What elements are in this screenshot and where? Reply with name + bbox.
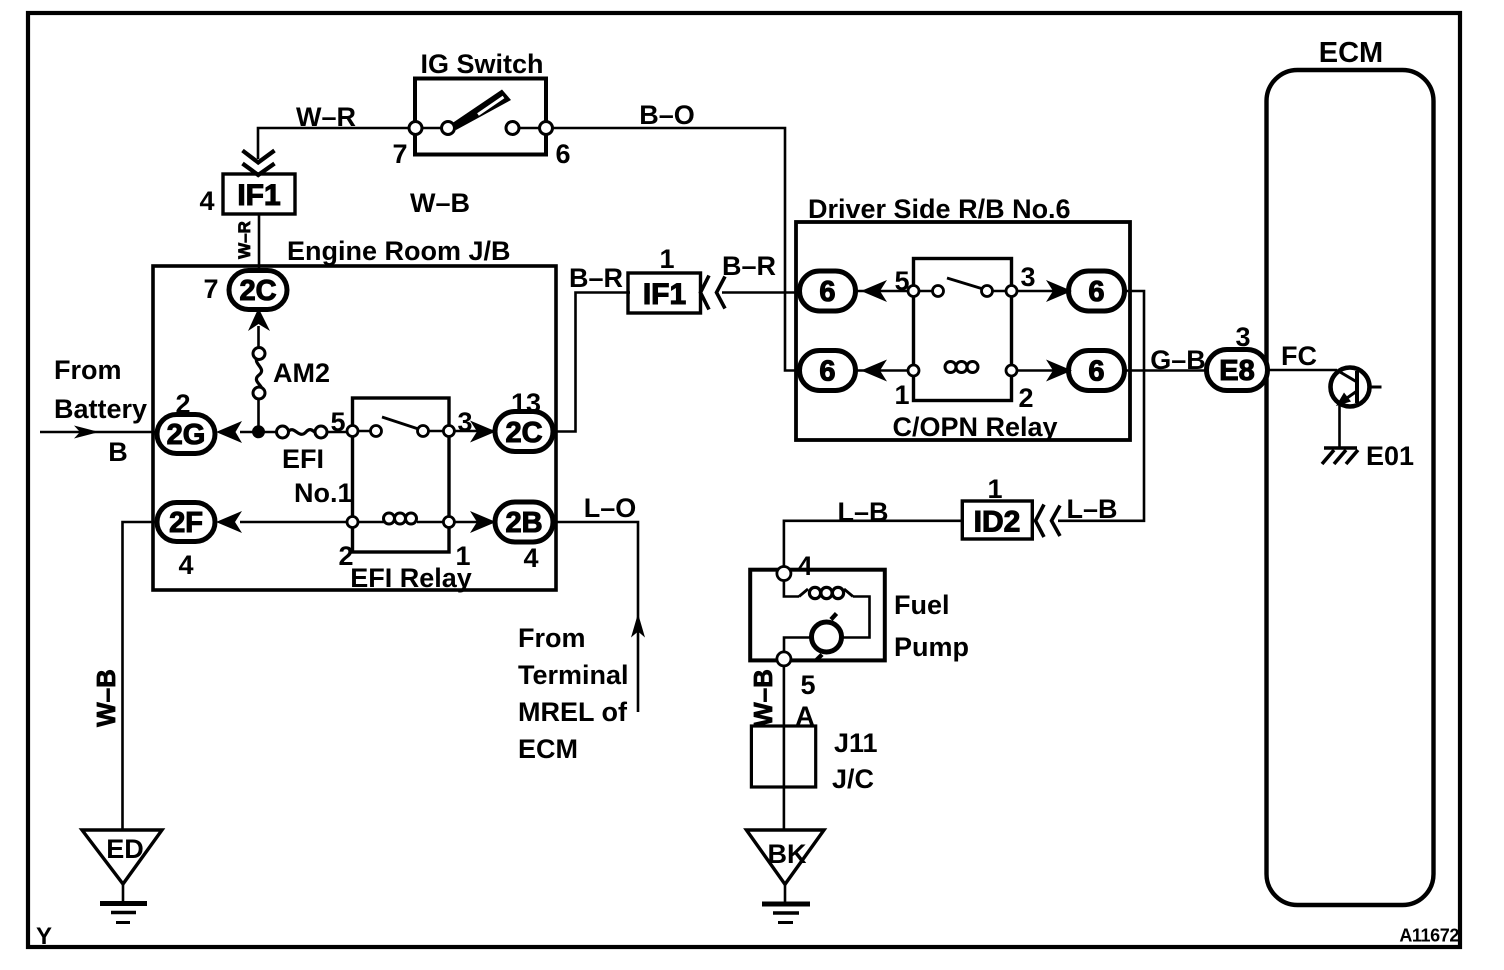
svg-text:ECM: ECM [1319, 37, 1383, 69]
svg-text:MREL of: MREL of [518, 697, 628, 727]
svg-text:L–B: L–B [1066, 494, 1117, 524]
svg-text:E8: E8 [1219, 355, 1254, 387]
svg-text:W–R: W–R [296, 102, 356, 132]
svg-text:W–R: W–R [235, 221, 254, 259]
svg-text:1: 1 [894, 380, 909, 410]
svg-text:7: 7 [203, 274, 218, 304]
svg-text:Y: Y [36, 923, 52, 950]
svg-text:4: 4 [178, 550, 193, 580]
svg-text:6: 6 [819, 276, 835, 308]
svg-text:EFI Relay: EFI Relay [350, 563, 472, 593]
svg-text:Fuel: Fuel [894, 590, 950, 620]
svg-text:AM2: AM2 [273, 358, 330, 388]
svg-text:1: 1 [659, 244, 674, 274]
svg-text:W–B: W–B [748, 669, 778, 727]
svg-text:2F: 2F [169, 507, 203, 539]
svg-text:B–R: B–R [569, 263, 623, 293]
svg-text:E01: E01 [1366, 441, 1414, 471]
svg-text:5: 5 [800, 670, 815, 700]
svg-text:Driver Side R/B No.6: Driver Side R/B No.6 [808, 194, 1071, 224]
svg-text:2B: 2B [505, 507, 542, 539]
svg-text:J11: J11 [834, 728, 878, 758]
svg-text:EFI: EFI [282, 444, 324, 474]
svg-text:Battery: Battery [54, 394, 147, 424]
svg-text:G–B: G–B [1150, 345, 1206, 375]
svg-text:ID2: ID2 [974, 506, 1021, 539]
svg-text:7: 7 [392, 139, 407, 169]
svg-text:13: 13 [511, 388, 541, 418]
svg-text:3: 3 [457, 407, 472, 437]
svg-text:B–R: B–R [722, 251, 776, 281]
svg-text:2G: 2G [167, 419, 206, 451]
svg-text:From: From [518, 623, 586, 653]
svg-text:6: 6 [1088, 276, 1104, 308]
svg-text:From: From [54, 355, 122, 385]
svg-text:2C: 2C [239, 275, 276, 307]
svg-text:L–O: L–O [584, 493, 637, 523]
svg-text:2C: 2C [505, 417, 542, 449]
svg-text:J/C: J/C [832, 764, 874, 794]
svg-text:ECM: ECM [518, 734, 578, 764]
svg-text:4: 4 [199, 186, 214, 216]
svg-text:A11672: A11672 [1399, 926, 1459, 946]
svg-text:ED: ED [106, 834, 144, 864]
svg-text:C/OPN Relay: C/OPN Relay [892, 412, 1057, 442]
svg-text:BK: BK [768, 839, 807, 869]
svg-text:6: 6 [1088, 356, 1104, 388]
svg-text:2: 2 [1018, 383, 1033, 413]
svg-text:3: 3 [1235, 322, 1250, 352]
svg-text:W–B: W–B [410, 188, 470, 218]
svg-text:IG Switch: IG Switch [420, 49, 543, 79]
svg-text:B–O: B–O [639, 100, 695, 130]
svg-text:A: A [795, 701, 815, 731]
svg-text:6: 6 [555, 139, 570, 169]
svg-text:4: 4 [523, 543, 538, 573]
svg-text:FC: FC [1281, 341, 1317, 371]
svg-text:No.1: No.1 [294, 478, 353, 508]
svg-text:Pump: Pump [894, 632, 969, 662]
svg-text:Engine Room J/B: Engine Room J/B [287, 236, 511, 266]
svg-text:W–B: W–B [91, 669, 121, 727]
svg-text:L–B: L–B [837, 497, 888, 527]
svg-text:Terminal: Terminal [518, 660, 629, 690]
svg-text:6: 6 [819, 356, 835, 388]
svg-text:5: 5 [894, 266, 909, 296]
svg-text:1: 1 [987, 474, 1002, 504]
svg-text:4: 4 [797, 551, 812, 581]
svg-text:5: 5 [330, 407, 345, 437]
svg-text:2: 2 [175, 389, 190, 419]
svg-text:IF1: IF1 [643, 278, 686, 311]
svg-text:IF1: IF1 [237, 179, 280, 212]
svg-text:B: B [108, 437, 128, 467]
svg-text:3: 3 [1020, 262, 1035, 292]
